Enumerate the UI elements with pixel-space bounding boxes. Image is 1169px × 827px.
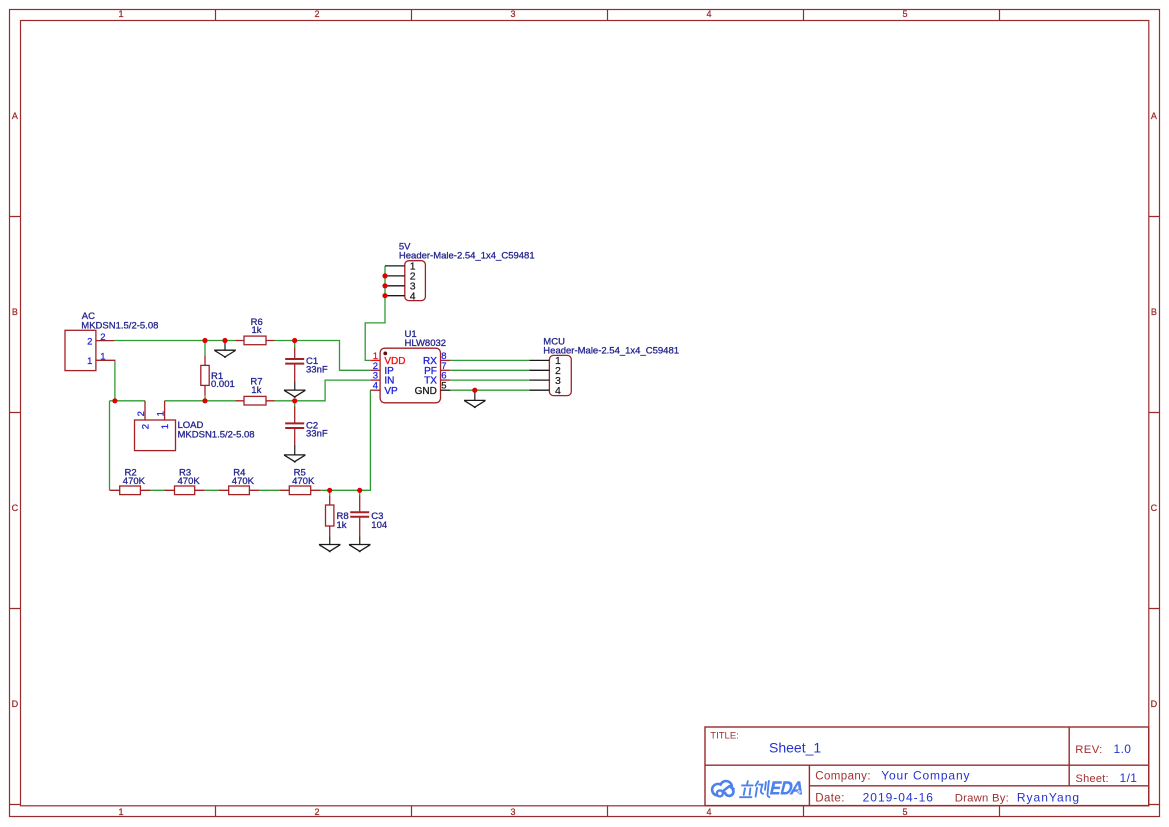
wire stubs at R1 [204,341,206,401]
svg-text:C: C [12,503,19,513]
node GND wire [472,388,477,393]
IC U1 HLW8032 [370,329,450,403]
svg-text:2: 2 [314,9,319,19]
wire LOAD.1 to R7 to U1.IN [165,380,371,401]
svg-text:1: 1 [160,424,171,429]
resistor R7 1k [236,377,275,405]
junction node dots [112,273,477,493]
svg-text:A: A [12,111,18,121]
resistor R4 470K [219,467,260,494]
svg-text:Your Company: Your Company [881,769,970,783]
capacitor C2 33nF [285,407,328,445]
wire U1.GND to MCU.4 [450,389,529,391]
svg-text:33nF: 33nF [306,364,328,375]
LOGO 立创EDA [712,781,802,797]
logo cloud [712,781,733,796]
pin 7 PF [441,369,451,371]
svg-text:B: B [12,307,18,317]
pin 4 VP [370,389,380,391]
ground under C2 [284,445,306,463]
svg-text:D: D [12,699,19,709]
svg-text:3: 3 [510,9,515,19]
svg-text:Drawn By:: Drawn By: [955,792,1009,804]
connector LOAD MKDSN1.5/2-5.08 [135,401,255,451]
svg-text:Date:: Date: [815,792,845,804]
ground under C3 [349,537,371,552]
svg-text:4: 4 [706,807,711,817]
svg-text:D: D [1151,699,1158,709]
wire stub above R8 [329,490,331,495]
svg-text:1.0: 1.0 [1114,742,1132,756]
svg-text:470K: 470K [123,476,146,487]
resistor R1 0.001 (vertical shunt) [201,355,235,395]
logo glyph li [740,781,753,797]
svg-text:5: 5 [902,9,907,19]
node C1 top [292,338,297,343]
bottom ticks [216,806,1000,817]
svg-text:1: 1 [118,807,123,817]
svg-text:1k: 1k [337,520,347,531]
svg-text:4: 4 [373,381,378,392]
resistor R3 470K [165,467,205,494]
logo glyph chuang [756,781,770,797]
resistor R5 470K [279,467,320,494]
wire U1.RX to MCU.1 [450,359,529,361]
node R1 top [202,338,207,343]
svg-text:Header-Male-2.54_1x4_C59481: Header-Male-2.54_1x4_C59481 [399,250,535,261]
node 5V pin3 [382,283,387,288]
svg-text:VP: VP [384,386,398,397]
wire bottom rail [110,390,371,490]
svg-text:TITLE:: TITLE: [710,731,739,742]
svg-text:4: 4 [706,9,711,19]
capacitor C1 33nF [285,347,328,381]
pin 3 IN [370,379,380,381]
svg-text:MKDSN1.5/2-5.08: MKDSN1.5/2-5.08 [178,429,255,440]
svg-text:470K: 470K [232,476,255,487]
svg-text:4: 4 [555,385,561,397]
svg-text:Company:: Company: [815,771,871,783]
node C3 top [357,488,362,493]
node gnd top wire [222,338,227,343]
wire mid-left to LOAD.2 [110,400,146,402]
right ticks [1149,217,1160,805]
svg-text:5: 5 [441,381,446,392]
logo text EDA [770,781,802,794]
svg-text:MKDSN1.5/2-5.08: MKDSN1.5/2-5.08 [81,320,158,331]
svg-text:2019-04-16: 2019-04-16 [863,790,934,804]
svg-text:Sheet:: Sheet: [1076,773,1109,785]
svg-text:5: 5 [902,807,907,817]
svg-text:1k: 1k [251,385,261,396]
svg-text:HLW8032: HLW8032 [405,338,447,349]
svg-text:2: 2 [141,424,152,429]
svg-text:4: 4 [410,291,416,303]
wire top AC.2 to R6 [114,340,235,342]
wire 5V header to U1.VDD [365,266,385,361]
pin 8 RX [441,359,451,361]
wire AC.1 down [114,360,116,401]
svg-text:B: B [1151,307,1157,317]
svg-text:2: 2 [87,337,92,348]
connector AC MKDSN1.5/2-5.08 [65,311,158,371]
resistor R2 470K [110,467,150,494]
svg-text:RyanYang: RyanYang [1017,790,1080,804]
pin 1 VDD (red) [370,359,380,361]
logo zigzag wire [723,786,734,791]
svg-text:2: 2 [100,332,105,343]
svg-text:2: 2 [136,411,147,416]
svg-text:REV:: REV: [1075,744,1102,756]
logo node circle [717,790,723,796]
node 5V pin2 [382,273,387,278]
svg-text:104: 104 [371,520,387,531]
svg-text:1: 1 [100,352,105,363]
wire stub above C2 [294,401,296,407]
wire U1.PF to MCU.2 [450,369,529,371]
svg-text:2: 2 [314,807,319,817]
svg-text:GND: GND [415,386,437,397]
pin 5 GND [441,389,451,391]
pin 2 IP [370,369,380,371]
pin 6 TX [441,379,451,381]
wire U1.TX to MCU.3 [450,379,529,381]
node AC.1 mid wire [112,398,117,403]
top ticks [216,10,1000,21]
svg-text:3: 3 [510,807,515,817]
node R1 bottom [202,398,207,403]
svg-text:Header-Male-2.54_1x4_C59481: Header-Male-2.54_1x4_C59481 [543,345,679,356]
wire left vertical to bottom rail [109,401,111,491]
svg-text:1: 1 [118,9,123,19]
node R8 top [327,488,332,493]
header MCU Header-Male-2.54_1x4_C59481 [529,337,679,398]
wire stub above C1 [294,341,296,348]
ground under R8 [319,537,341,552]
svg-text:1k: 1k [252,325,262,336]
capacitor C3 104 [350,495,387,536]
svg-text:470K: 470K [178,476,201,487]
resistor R8 1k (vertical) [326,495,349,536]
svg-text:C: C [1151,503,1158,513]
svg-text:0.001: 0.001 [211,379,235,390]
svg-text:1: 1 [87,356,92,367]
node 5V pin4 [382,293,387,298]
resistor R6 1k [236,317,275,345]
node C2 top [292,398,297,403]
svg-text:470K: 470K [292,476,315,487]
ground on U1 GND wire [464,390,486,407]
header 5V Header-Male-2.54_1x4_C59481 [385,242,535,303]
svg-text:33nF: 33nF [306,429,328,440]
ground under C1 [284,382,306,398]
ground on top wire [214,341,236,358]
svg-text:1: 1 [155,411,166,416]
wire R6 to C1 to U1.IP [275,341,371,371]
TITLEBLOCK [705,727,1149,806]
CIRCUIT [65,242,679,552]
svg-text:Sheet_1: Sheet_1 [769,739,821,755]
svg-text:1/1: 1/1 [1120,771,1138,785]
left ticks [10,217,21,805]
svg-text:A: A [1151,111,1157,121]
wire stub above C3 [359,490,361,495]
